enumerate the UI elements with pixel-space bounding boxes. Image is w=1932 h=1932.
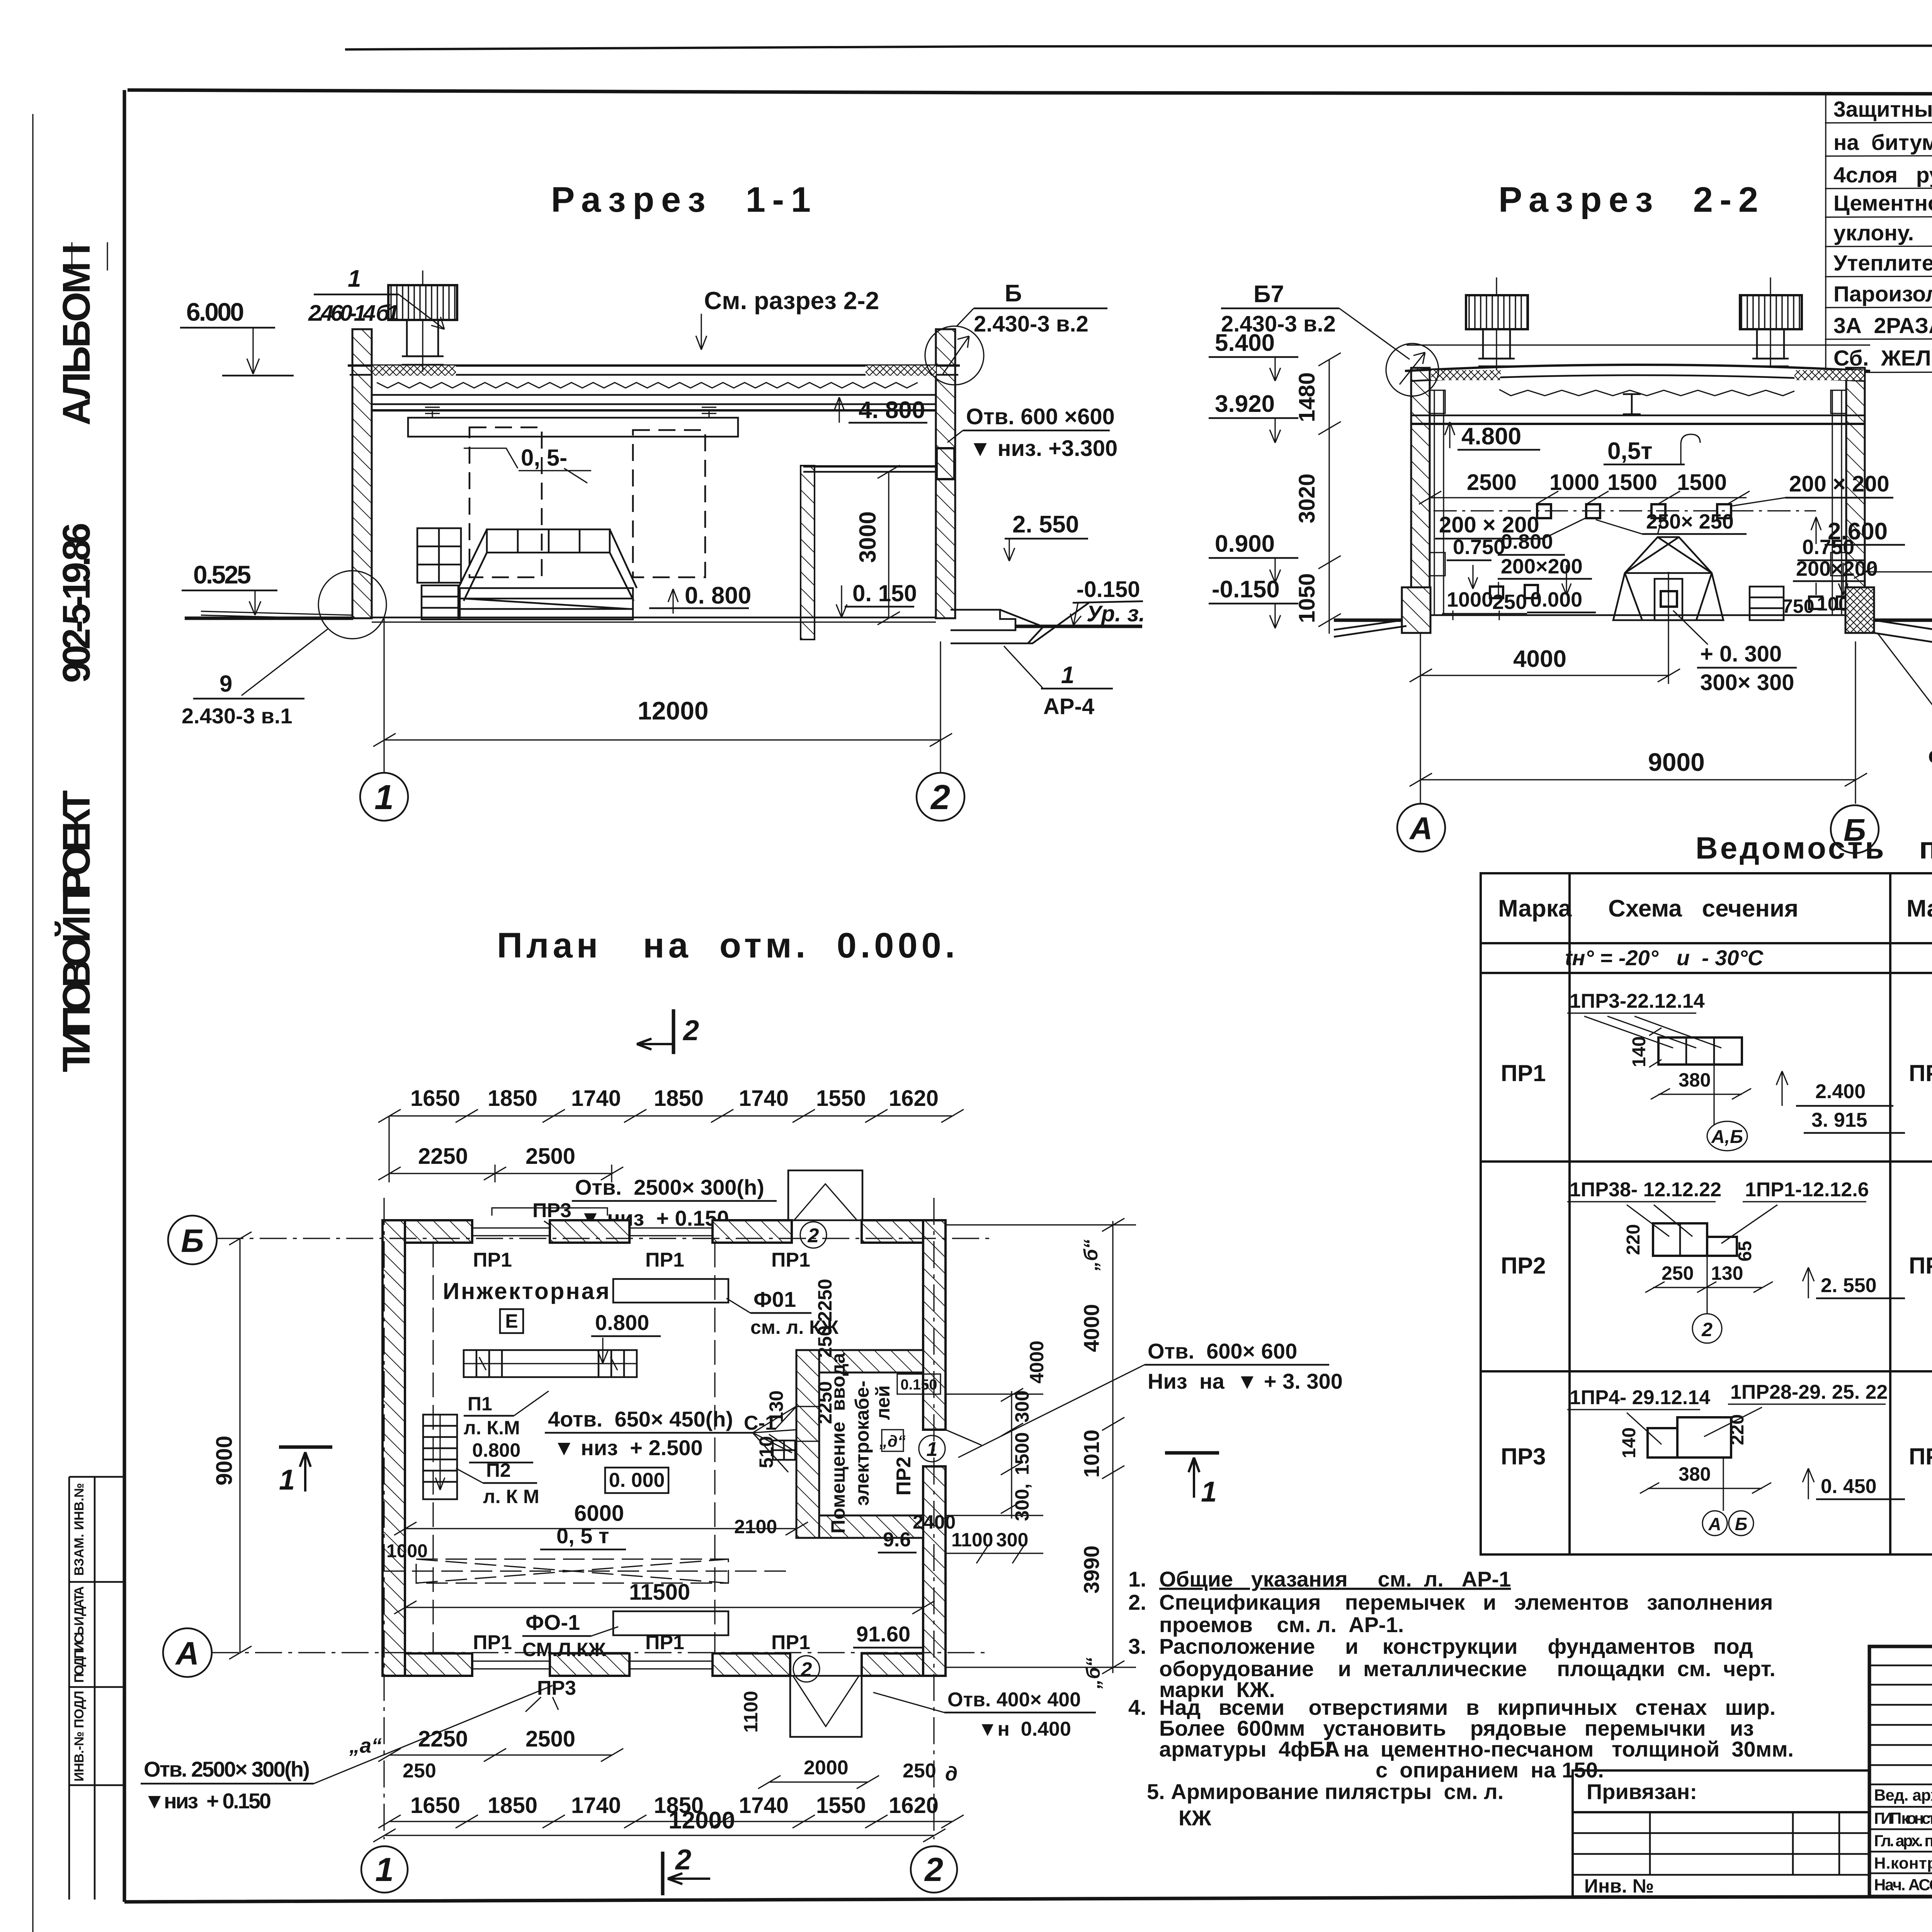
section 2-2 callout Б7 / 2.430-3 в.2: [1221, 281, 1410, 359]
svg-text:1000: 1000: [1447, 588, 1493, 611]
section 1-1 detail circle top right: [925, 326, 984, 385]
svg-text:tн° = -20° и - 30°С: tн° = -20° и - 30°С: [1565, 946, 1764, 970]
svg-text:-0.150: -0.150: [1212, 576, 1280, 603]
svg-text:Пароизоляция - смазка горячи: Пароизоляция - смазка горячим битумом: [1833, 282, 1932, 306]
plan bench equipment: [464, 1350, 637, 1377]
svg-text:4000: 4000: [1513, 646, 1566, 672]
section 2-2 apron left: [1334, 620, 1406, 637]
svg-text:Сб. ЖЕЛ. БЕТ. плиты: Сб. ЖЕЛ. БЕТ. плиты: [1833, 346, 1932, 371]
section 1-1 note see section 2-2: [696, 287, 879, 350]
section 2-2 detail circle top left: [1386, 344, 1439, 396]
svg-text:0. 800: 0. 800: [685, 582, 751, 609]
svg-text:220: 220: [1623, 1224, 1644, 1255]
section 2-2 bottom labels 1000 250 0.000: [1442, 588, 1596, 620]
svg-text:12000: 12000: [638, 696, 709, 725]
svg-text:Расположение и конструк: Расположение и конструкции фундаментов п…: [1159, 1634, 1753, 1658]
section 2-2 central tank: [1613, 537, 1723, 620]
svg-text:1500: 1500: [1011, 1432, 1033, 1475]
svg-text:1620: 1620: [889, 1086, 939, 1111]
svg-text:12000: 12000: [668, 1807, 735, 1834]
plan axis line 2 vertical: [933, 1198, 934, 1839]
svg-text:0, 5 т: 0, 5 т: [556, 1524, 609, 1548]
svg-text:1480: 1480: [1294, 372, 1320, 422]
svg-text:Отв. 600× 600: Отв. 600× 600: [1148, 1339, 1297, 1363]
svg-text:1740: 1740: [571, 1793, 621, 1818]
svg-text:ПР3: ПР3: [1501, 1444, 1546, 1469]
plan callout hole 600x600: [958, 1339, 1343, 1458]
section 2-2 elevation 5.400: [1209, 330, 1298, 381]
plan label Ф01: [726, 1287, 839, 1338]
section 1-1 detail label 9 / 2.430-3 в.1: [182, 671, 304, 728]
section 1-1 elevation 0.525: [182, 560, 277, 615]
svg-text:ПР3: ПР3: [532, 1199, 571, 1222]
section 1-1 callout 1 / АР-4: [1004, 646, 1113, 719]
plan callout 4 holes 650x450: [545, 1406, 797, 1472]
svg-text:200 × 200: 200 × 200: [1789, 471, 1889, 497]
svg-text:АЛЬБОМ I: АЛЬБОМ I: [55, 244, 98, 425]
svg-text:2: 2: [675, 1844, 691, 1876]
sheet top band upper line: [345, 45, 1932, 49]
svg-text:1740: 1740: [739, 1793, 789, 1818]
section 1-1 right wall: [936, 329, 955, 618]
svg-text:Общие указания см. л.: Общие указания см. л. АР-1: [1159, 1567, 1511, 1591]
svg-text:0.900: 0.900: [1215, 531, 1275, 557]
section 2-2 left wall: [1411, 368, 1430, 620]
section 2-2 ground line right: [1865, 619, 1932, 622]
plan axis circle 1 bottom: [361, 1846, 408, 1893]
left margin vertical title: album: [54, 242, 107, 1072]
svg-text:лей: лей: [872, 1385, 894, 1420]
svg-text:2: 2: [801, 1658, 812, 1681]
plan bottom dim row 2250 2500: [349, 1726, 957, 1785]
plan callout hole 2500x300 top: [532, 1175, 777, 1242]
svg-text:2: 2: [808, 1225, 819, 1247]
svg-text:4отв. 650× 450(h): 4отв. 650× 450(h): [548, 1407, 733, 1431]
svg-text:3.: 3.: [1128, 1634, 1146, 1658]
plan partition vertical electro room: [796, 1350, 819, 1538]
svg-text:Б: Б: [181, 1223, 204, 1259]
svg-text:2500: 2500: [526, 1726, 575, 1752]
plan right wall door opening: [923, 1430, 981, 1466]
plan crane dashed area: [383, 1559, 792, 1583]
svg-text:2250: 2250: [418, 1144, 468, 1169]
svg-text:ПОДПИСЬ И ДАТА: ПОДПИСЬ И ДАТА: [72, 1586, 87, 1683]
svg-text:4000: 4000: [1026, 1340, 1048, 1383]
svg-text:ПР1: ПР1: [645, 1631, 684, 1654]
section 2-2 left arrows: [1468, 565, 1571, 597]
plan label П1 л.КМ 0.800: [464, 1391, 549, 1463]
svg-text:0.800: 0.800: [472, 1439, 520, 1461]
svg-text:1: 1: [279, 1464, 295, 1496]
svg-text:0.750: 0.750: [1802, 536, 1854, 559]
section 2-2 left small squares: [1490, 585, 1538, 598]
section 1-1 entrance pit right: [951, 603, 1089, 643]
section 2-2 apron right: [1874, 620, 1932, 651]
svg-text:2.430-3 в.2: 2.430-3 в.2: [974, 311, 1088, 337]
svg-text:Вед. арх.: Вед. арх.: [1874, 1786, 1932, 1804]
svg-text:Отв. 400× 400: Отв. 400× 400: [947, 1689, 1081, 1711]
svg-text:9000: 9000: [1648, 748, 1705, 776]
svg-text:2500: 2500: [1467, 470, 1517, 495]
svg-text:КЖ: КЖ: [1179, 1806, 1211, 1830]
left margin stamp boxes: [69, 1477, 124, 1900]
svg-text:Утеплитель пенобетон γо= 5: Утеплитель пенобетон γо= 500 кг/м³: [1833, 251, 1932, 276]
svg-text:1: 1: [1061, 662, 1074, 689]
svg-text:1: 1: [348, 265, 361, 292]
plan dim 2000 bottom: [758, 1757, 879, 1789]
plan wall right upper: [923, 1220, 946, 1430]
plan dim 12000 bottom: [373, 1807, 946, 1842]
section 2-2 label 250x250: [1596, 510, 1747, 534]
svg-text:П2: П2: [486, 1459, 511, 1481]
svg-text:0.150: 0.150: [900, 1377, 937, 1393]
svg-text:ПР1: ПР1: [771, 1631, 810, 1654]
svg-text:2100: 2100: [734, 1516, 777, 1537]
plan wall right lower: [923, 1466, 946, 1676]
section 2-2 right wall: [1846, 368, 1865, 620]
plan label 9.6: [878, 1529, 917, 1553]
svg-text:ПР3: ПР3: [537, 1677, 576, 1699]
section 2-2 footing right: [1845, 587, 1874, 633]
svg-text:0.750: 0.750: [1453, 536, 1505, 559]
svg-text:1ПР38- 12.12.22: 1ПР38- 12.12.22: [1570, 1179, 1721, 1201]
svg-text:ПР2: ПР2: [1501, 1253, 1546, 1279]
plan top dim row 2: [378, 1116, 623, 1182]
svg-text:5. Армирование пилястры см. л: 5. Армирование пилястры см. л.: [1147, 1779, 1503, 1804]
svg-text:2: 2: [1701, 1319, 1713, 1340]
svg-text:0,5т: 0,5т: [1607, 438, 1653, 464]
section 1-1 label 0,5-: [464, 445, 591, 483]
svg-text:0.000: 0.000: [1530, 588, 1582, 611]
svg-text:„б“: „б“: [1080, 1240, 1102, 1271]
svg-text:9000: 9000: [212, 1435, 237, 1485]
section 2-2 floor line: [1430, 614, 1846, 616]
svg-text:130: 130: [765, 1390, 787, 1422]
svg-text:СМ.Л.КЖ: СМ.Л.КЖ: [522, 1639, 606, 1660]
plan partition door: [775, 1406, 819, 1441]
section 2-2 callout +0.300 / 300x300: [1673, 611, 1797, 695]
svg-text:„б“: „б“: [1082, 1658, 1104, 1689]
section 2-2 right labels 750 1000: [1777, 593, 1865, 617]
svg-text:ПР2: ПР2: [1909, 1253, 1932, 1279]
plan label С-1: [744, 1412, 792, 1450]
svg-text:250: 250: [903, 1760, 936, 1782]
plan axis circle А: [163, 1628, 212, 1677]
svg-text:Цементно- песчаная стяжка: Цементно- песчаная стяжка М50 20÷15мм по: [1833, 191, 1932, 216]
svg-text:220: 220: [1727, 1414, 1748, 1445]
svg-text:См. разрез 2-2: См. разрез 2-2: [704, 287, 879, 315]
section 2-2 label 200x200 left: [1435, 512, 1586, 539]
plan top dim row 1: [378, 1086, 964, 1122]
section 1-1 label 0.800: [649, 582, 751, 614]
section 2-2 column axis dash line: [1434, 510, 1816, 511]
section 1-1 detail arrow top right: [943, 336, 969, 374]
plan fixture C-1: [773, 1440, 795, 1460]
svg-text:1ПР4- 29.12.14: 1ПР4- 29.12.14: [1570, 1386, 1710, 1409]
svg-text:0. 150: 0. 150: [852, 580, 917, 606]
plan partition bottom electro room: [819, 1515, 923, 1538]
section 2-2 roof I-beam center: [1623, 394, 1641, 414]
svg-text:ТИПОВОЙ ПРОЕКТ: ТИПОВОЙ ПРОЕКТ: [54, 790, 98, 1072]
svg-text:Е: Е: [505, 1310, 518, 1332]
plan section mark 1 right: [1165, 1453, 1219, 1508]
svg-text:2250: 2250: [814, 1279, 836, 1321]
section 2-2 axis circle Б: [1831, 805, 1879, 853]
lintel ПР2 left diagram: [1567, 1179, 1905, 1343]
section 2-2 parapet rail line: [1406, 344, 1870, 345]
svg-text:Марка: Марка: [1498, 895, 1572, 922]
lintel row labels: [1501, 1060, 1932, 1469]
svg-text:„а“: „а“: [349, 1734, 382, 1757]
plan label ПР3 bottom: [526, 1677, 576, 1712]
svg-text:Спецификация перемычек и: Спецификация перемычек и элементов запол…: [1159, 1590, 1773, 1614]
section 1-1 axis circle 2: [917, 773, 964, 821]
section 1-1 label 4.800: [834, 397, 927, 423]
svg-text:9.6: 9.6: [883, 1529, 911, 1551]
svg-text:2: 2: [924, 1851, 943, 1888]
svg-text:Отв. 2500× 300(h): Отв. 2500× 300(h): [575, 1175, 764, 1199]
svg-text:1ПР1-12.12.6: 1ПР1-12.12.6: [1745, 1179, 1869, 1201]
plan bottom dim row full: [378, 1793, 964, 1828]
section 2-2 elevation -0.150: [1209, 576, 1298, 628]
svg-text:1: 1: [927, 1438, 938, 1461]
section 1-1 footing ramp left: [201, 611, 352, 619]
plan axis line Б horizontal: [216, 1238, 989, 1239]
svg-text:2.430-3 в.1: 2.430-3 в.1: [182, 704, 293, 728]
sheet frame bottom line: [124, 1896, 1932, 1902]
plan dim 11500: [394, 1580, 935, 1614]
plan circled 1 door: [919, 1435, 945, 1462]
section 2-2 vent deflector left: [1466, 277, 1528, 370]
plan wall left: [383, 1220, 405, 1676]
lintel table headers: [1498, 895, 1932, 922]
section 1-1 dim 12000: [373, 618, 952, 773]
svg-text:А: А: [1409, 811, 1432, 846]
section 2-2 roof crosshatch left: [1431, 370, 1501, 380]
svg-text:-0.150: -0.150: [1077, 577, 1140, 602]
section 2-2 dim 4000: [1410, 572, 1680, 684]
svg-text:6000: 6000: [574, 1501, 624, 1526]
svg-text:▼н 0.400: ▼н 0.400: [978, 1718, 1071, 1740]
svg-text:200×200: 200×200: [1796, 557, 1878, 580]
svg-text:4000: 4000: [1079, 1304, 1104, 1352]
svg-text:Инв. №: Инв. №: [1584, 1875, 1654, 1897]
svg-text:ПР1: ПР1: [771, 1249, 810, 1271]
svg-text:0.525: 0.525: [193, 560, 251, 589]
svg-text:1740: 1740: [739, 1086, 789, 1111]
plan label П2 л.КМ: [456, 1459, 539, 1507]
plan circled 2 bottom porch: [793, 1656, 820, 1682]
lintel table temperature row: [1565, 946, 1932, 971]
section 2-2 vertical dims 1480 3020 1050: [1294, 353, 1341, 634]
section 1-1 detail circle bottom left: [318, 571, 386, 639]
svg-text:2.: 2.: [1128, 1590, 1146, 1614]
roof layers note block border: [1826, 47, 1932, 475]
svg-text:Схема сечения: Схема сечения: [1608, 895, 1798, 922]
svg-text:л. К М: л. К М: [483, 1486, 539, 1507]
svg-text:Ведомость перемычек.: Ведомость перемычек.: [1696, 831, 1932, 865]
svg-text:Привязан:: Привязан:: [1587, 1779, 1697, 1804]
svg-text:1: 1: [374, 778, 394, 817]
plan room mark Е: [500, 1309, 523, 1333]
plan dim chain right outer 4000 1010 3990: [946, 1218, 1136, 1674]
svg-text:1: 1: [1201, 1476, 1217, 1508]
section 2-2 detail arrow: [1400, 352, 1425, 384]
svg-text:5.400: 5.400: [1215, 330, 1275, 356]
svg-text:Отв. 600 ×600: Отв. 600 ×600: [966, 404, 1115, 429]
svg-text:1000: 1000: [386, 1541, 428, 1561]
section 2-2 dim row 2500 1000 1500 1500: [1419, 470, 1750, 504]
svg-text:1650: 1650: [410, 1793, 460, 1818]
section 1-1 machinery group: [417, 528, 637, 619]
plan porch bottom: [790, 1676, 862, 1737]
svg-text:▼ низ. +3.300: ▼ низ. +3.300: [969, 436, 1117, 461]
section 2-2 vent deflector right: [1740, 277, 1802, 366]
lintel ПР3 left diagram: [1567, 1381, 1905, 1536]
svg-text:2. 550: 2. 550: [1012, 511, 1079, 538]
section 2-2 elevation 3.920: [1209, 391, 1298, 443]
plan interior dashed line left: [432, 1243, 434, 1653]
svg-text:2250: 2250: [814, 1381, 836, 1424]
svg-text:ФО-1: ФО-1: [526, 1610, 580, 1634]
svg-text:ПР1: ПР1: [473, 1249, 512, 1271]
svg-text:1010: 1010: [1079, 1430, 1104, 1478]
svg-text:2000: 2000: [804, 1757, 849, 1779]
svg-text:П1: П1: [468, 1393, 492, 1415]
svg-text:1740: 1740: [571, 1086, 621, 1111]
section 1-1 axis circle 1: [360, 773, 408, 821]
svg-text:1.: 1.: [1128, 1567, 1146, 1591]
svg-text:+ 0. 300: + 0. 300: [1700, 641, 1782, 667]
section 2-2 roof slab: [1405, 365, 1870, 424]
svg-text:200×200: 200×200: [1501, 555, 1583, 578]
svg-text:4слоя рубероида РэМ-350 н: 4слоя рубероида РэМ-350 на битумной маст…: [1833, 163, 1932, 187]
svg-text:ПР1: ПР1: [473, 1631, 512, 1654]
plan hole 400x400 callout: [873, 1689, 1096, 1740]
section 2-2 wall pilaster lines: [1430, 390, 1846, 615]
svg-text:1ПР28-29. 25. 22: 1ПР28-29. 25. 22: [1730, 1381, 1888, 1403]
section 1-1 label 2.550: [1004, 511, 1088, 561]
section 1-1 opening in right wall: [937, 448, 954, 479]
section 2-2 axis circle А: [1397, 804, 1445, 852]
lintel table grid: [1481, 873, 1932, 1554]
svg-text:2: 2: [930, 778, 950, 817]
plan label 91.60: [853, 1622, 923, 1648]
svg-text:АР-4: АР-4: [1043, 694, 1094, 719]
svg-text:на битумной мастике *): на битумной мастике *): [1833, 130, 1932, 155]
svg-text:1: 1: [375, 1851, 394, 1888]
plan axis circle 2 bottom: [911, 1846, 957, 1893]
section 1-1 roof slab lines: [348, 366, 960, 410]
section 1-1 ground line left: [185, 617, 353, 620]
svg-text:см. пояснит. записку: см. пояснит. записку: [1928, 743, 1932, 768]
section 2-2 label 0,5т crane hook: [1604, 434, 1700, 464]
svg-text:380: 380: [1679, 1069, 1711, 1091]
svg-text:750: 750: [1782, 595, 1814, 617]
svg-text:130: 130: [1711, 1262, 1743, 1284]
svg-text:0. 450: 0. 450: [1821, 1475, 1877, 1498]
section 2-2 label 4.800: [1445, 422, 1540, 450]
svg-text:902-5-19.86: 902-5-19.86: [55, 523, 98, 683]
svg-text:91.60: 91.60: [856, 1622, 910, 1646]
plan label ФО-1: [522, 1610, 618, 1660]
section 1-1 partition wall right: [801, 466, 815, 639]
section 2-2 left equipment labels: [1447, 530, 1592, 579]
svg-text:3000: 3000: [855, 511, 881, 563]
svg-text:3990: 3990: [1079, 1546, 1104, 1594]
plan callout hole 2500x300 bottom left: [141, 1685, 553, 1813]
title block signature names: [1874, 1786, 1932, 1894]
svg-text:1550: 1550: [816, 1086, 866, 1111]
plan section mark 2 bottom: [663, 1844, 710, 1895]
svg-text:Б: Б: [1735, 1514, 1748, 1534]
svg-text:ВЗАМ. ИНВ.№: ВЗАМ. ИНВ.№: [72, 1483, 87, 1576]
svg-text:с опиранием на 150.: с опиранием на 150.: [1376, 1758, 1604, 1782]
plan level 0.000 box: [605, 1468, 668, 1493]
section 1-1 roof crosshatch right: [866, 366, 936, 376]
svg-text:Помещение ввода: Помещение ввода: [827, 1352, 849, 1534]
svg-text:3. 915: 3. 915: [1811, 1109, 1867, 1131]
plan circled 2 top porch: [800, 1222, 827, 1248]
section 1-1 equipment dashed tank right: [633, 430, 705, 577]
svg-text:ГИП констр.: ГИП констр.: [1874, 1809, 1932, 1827]
svg-text:Марка: Марка: [1906, 895, 1932, 922]
section 1-1 callout hole 600x600: [947, 404, 1117, 461]
svg-text:3.920: 3.920: [1215, 391, 1275, 417]
plan box letter Д: [879, 1430, 906, 1451]
svg-text:4.800: 4.800: [1461, 423, 1521, 450]
svg-text:250: 250: [403, 1760, 436, 1782]
svg-text:Отв. 2500× 300(h): Отв. 2500× 300(h): [144, 1757, 310, 1781]
plan stair left: [423, 1415, 457, 1499]
section 2-2 waterproofing callout: [1878, 634, 1932, 768]
section 1-1 roof crosshatch left: [372, 366, 456, 376]
plan dim chain right inner 300 1500 300: [946, 1388, 1043, 1521]
svg-text:А,Б: А,Б: [1711, 1127, 1743, 1147]
svg-text:План на отм. 0.000.: План на отм. 0.000.: [497, 926, 959, 965]
plan wall bottom: [383, 1653, 946, 1676]
svg-text:▼ низ + 2.500: ▼ низ + 2.500: [553, 1435, 703, 1460]
section 1-1 detail leader 9: [241, 629, 328, 696]
section 1-1 detail label Б / 2.430-3 в.2: [956, 280, 1107, 337]
svg-text:ПР3: ПР3: [1909, 1444, 1932, 1469]
plan porch top: [788, 1170, 862, 1220]
svg-text:0.800: 0.800: [595, 1310, 649, 1335]
svg-text:1ПР3-22.12.14: 1ПР3-22.12.14: [1570, 990, 1705, 1012]
svg-text:140: 140: [1619, 1427, 1639, 1458]
section 2-2 label 200x200 top right: [1730, 471, 1893, 506]
section 1-1 elevation -0.150 ground: [1070, 577, 1145, 626]
svg-text:1000: 1000: [1549, 470, 1599, 495]
svg-text:0, 5-: 0, 5-: [521, 445, 567, 471]
svg-text:ПР1: ПР1: [1909, 1060, 1932, 1086]
plan labels ПР1 top row: [473, 1249, 810, 1271]
plan wall top: [383, 1208, 946, 1243]
svg-text:л. К.М: л. К.М: [464, 1417, 520, 1439]
svg-text:„д“: „д“: [879, 1432, 906, 1450]
svg-text:1500: 1500: [1607, 470, 1657, 495]
svg-text:А: А: [175, 1635, 199, 1672]
svg-text:2: 2: [682, 1014, 699, 1046]
svg-text:Ур. з.: Ур. з.: [1087, 601, 1145, 626]
section 1-1 equipment dashed tank left: [469, 427, 542, 577]
plan dim 6000: [394, 1501, 808, 1535]
svg-text:2. 550: 2. 550: [1821, 1274, 1877, 1297]
plan dim 1100 300 bottom right: [946, 1529, 1043, 1563]
svg-text:1620: 1620: [889, 1793, 939, 1818]
svg-text:ПР1: ПР1: [1501, 1060, 1546, 1086]
section 1-1 left wall: [352, 329, 372, 618]
